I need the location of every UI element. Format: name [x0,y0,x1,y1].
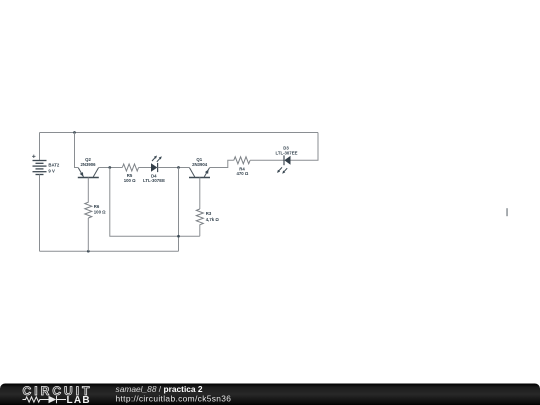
resistor R4 labels [236,166,248,176]
junction dot node Q2 collector [108,166,111,169]
svg-text:2N3906: 2N3906 [80,162,96,167]
wire R6 bottom lead [87,218,89,251]
transistor Q2 labels [80,157,96,167]
svg-text:2N3904: 2N3904 [192,162,208,167]
resistor R4 470 ohm [234,157,250,164]
svg-text:LTL-307EE: LTL-307EE [143,178,165,183]
wire Q2 emitter branch [75,133,79,168]
svg-text:R6: R6 [94,204,100,209]
wire node A down to bottom rail [178,168,180,252]
svg-text:BAT2: BAT2 [48,163,60,168]
CircuitLab logo: schematic squiggle (resistor + diode) [23,396,67,403]
wire battery bottom lead [39,175,41,252]
transistor Q1 labels [192,157,208,167]
resistor R6 100 ohm [85,202,92,218]
wire D4 to Q1 [158,167,190,169]
battery BAT2 9V [32,155,46,175]
wire top rail [40,132,319,134]
wire bottom rail [40,250,179,252]
svg-text:100 Ω: 100 Ω [124,178,136,183]
resistor R3 4.7k ohm [196,209,203,225]
battery BAT2 value labels [48,163,60,174]
wire Q1 emitter to R4 (with jog) [210,160,234,167]
svg-text:http://circuitlab.com/ck5sn36: http://circuitlab.com/ck5sn36 [116,393,232,403]
LED D4 labels [143,173,165,183]
wire Q2 base lead [87,178,89,203]
resistor R5 100 ohm [122,164,138,171]
resistor R5 labels [124,173,136,183]
resistor R6 labels [94,204,106,215]
svg-text:100 Ω: 100 Ω [94,210,106,215]
wire R3 bottom lead [199,224,201,236]
wire D3 to top rail [291,133,319,161]
svg-text:LTL-307EE: LTL-307EE [276,150,298,155]
wire R5 to D4 [139,167,151,169]
wire Q2 collector to R5 [99,167,123,169]
wire R4 to D3 [250,159,284,161]
footer bar [0,384,540,405]
junction dot on top rail [73,131,76,134]
svg-text:9 V: 9 V [48,169,55,174]
scrollbar tick mark [506,208,508,216]
wire Q1 base lead [199,178,201,210]
svg-text:470 Ω: 470 Ω [236,171,248,176]
wire battery top lead [39,133,41,161]
resistor R3 labels [206,211,220,222]
svg-text:LAB: LAB [67,395,91,405]
LED D3 LTL-307EE [277,155,291,173]
LED D3 labels [276,145,298,155]
transistor Q2 2N3906 (PNP) [78,168,99,178]
svg-text:4,7k Ω: 4,7k Ω [206,217,220,222]
junction dot feedback crossing [177,235,180,238]
transistor Q1 2N3904 (NPN) [189,168,210,178]
wire feedback Q2-collector node down and across [110,168,200,237]
LED D4 LTL-307EE [151,156,162,173]
svg-text:samael_88 / practica 2: samael_88 / practica 2 [116,384,203,394]
junction dot on bottom rail (R6 bottom) [87,250,90,253]
svg-text:R3: R3 [206,211,212,216]
junction dot node A [177,166,180,169]
